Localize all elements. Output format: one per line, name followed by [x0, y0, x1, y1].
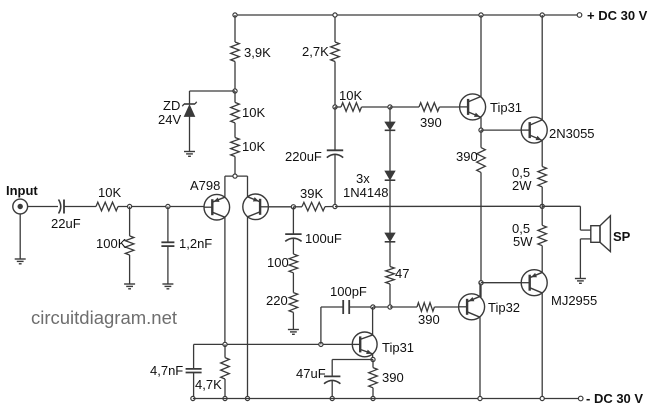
wire feedback node to 39K [293, 206, 302, 208]
wire 100K to ground [129, 255, 131, 284]
wire 4,7nF bottom lead [193, 373, 195, 399]
node Tip31 emitter [371, 357, 375, 361]
wire left emitter up [224, 176, 226, 197]
wire 220 to ground [292, 312, 294, 329]
transistor Tip31 lower [352, 332, 377, 357]
node Tip31 collector rail [479, 13, 483, 17]
svg-text:5W: 5W [513, 234, 533, 249]
wire 2N3055 emitter down [541, 140, 543, 166]
wire 100pF left lead [321, 306, 343, 308]
wire long output feedback line [335, 205, 542, 207]
svg-text:Input: Input [6, 183, 38, 198]
resistor 100 [289, 254, 298, 273]
resistor 47 [386, 267, 395, 285]
wire 100uF top lead [292, 207, 294, 234]
node 3,9K top corner [233, 13, 237, 17]
wire 2W to output node [541, 187, 543, 206]
zener diode ZD 24V [184, 105, 194, 117]
wire D3 to 47 [389, 242, 391, 267]
wire bottom -30V rail [193, 398, 581, 400]
svg-text:MJ2955: MJ2955 [551, 293, 597, 308]
transistor Tip32 [459, 294, 485, 320]
wire A798 collector load line [194, 343, 353, 345]
svg-text:2N3055: 2N3055 [549, 126, 595, 141]
wire MJ2955 base [481, 282, 521, 284]
transistor Tip31 upper [460, 94, 486, 120]
wire emitter to 47uF corner [332, 359, 373, 361]
terminal -DC 30V [578, 396, 583, 401]
wire output to speaker corner [542, 205, 580, 207]
capacitor 22uF [59, 200, 61, 214]
wire 10K to base with taps [118, 206, 204, 208]
wire input jack to 22uF [28, 206, 58, 208]
svg-text:3,9K: 3,9K [244, 45, 271, 60]
node 100pF branch bottom [319, 342, 323, 346]
wire between 10K resistors [234, 123, 236, 138]
node rail left end [191, 396, 195, 400]
wire 3,9K column top [234, 15, 236, 42]
wire node to 10K upper [234, 91, 236, 102]
wire 2N3055 collector to rail [541, 15, 543, 121]
svg-text:1,2nF: 1,2nF [179, 236, 212, 251]
wire 2,7K column top [334, 15, 336, 42]
wire Tip32 collector to rail [479, 317, 481, 399]
node VAS collector [371, 305, 375, 309]
resistor 390 upper horizontal [419, 103, 439, 112]
resistor 220 [289, 293, 298, 313]
ground speaker [575, 278, 586, 280]
capacitor 47uF [324, 375, 340, 377]
wire emitter tie [225, 175, 248, 177]
wire Tip32 emitter up [479, 283, 481, 297]
wire 3,9K to node [234, 62, 236, 92]
wire Tip31 collector up [372, 307, 374, 335]
svg-text:100: 100 [267, 255, 289, 270]
wire 100pF right lead [349, 306, 373, 308]
wire top +30V rail [235, 14, 579, 16]
wire 390 to Tip32 base [434, 306, 458, 308]
wire right emitter up [247, 176, 249, 197]
transistor MJ2955 [521, 270, 547, 296]
wire 47 to VAS collector node [389, 284, 391, 307]
node 1,2nF tap [166, 204, 170, 208]
svg-text:4,7K: 4,7K [195, 377, 222, 392]
wire MJ2955 collector to rail [541, 293, 543, 399]
wire input jack ground lead [19, 214, 21, 259]
resistor 10K upper [231, 102, 240, 123]
wire speaker ground lead [579, 239, 581, 278]
resistor 3,9K [231, 42, 240, 62]
svg-text:1N4148: 1N4148 [343, 185, 389, 200]
svg-text:39K: 39K [300, 186, 323, 201]
node emitter junction [233, 174, 237, 178]
wire 100pF branch vertical [320, 307, 322, 344]
node Tip31 emitter 2N3055 base [479, 128, 483, 132]
svg-text:10K: 10K [242, 139, 265, 154]
svg-text:220: 220 [266, 293, 288, 308]
node 2N3055 collector rail [540, 13, 544, 17]
resistor 100K [125, 236, 134, 255]
wire 1,2nF top lead [167, 207, 169, 243]
wire output node to 5W [541, 206, 543, 225]
resistor 0,5 2W [538, 167, 547, 187]
ground zener [184, 151, 195, 153]
svg-text:22uF: 22uF [51, 216, 81, 231]
speaker SP [591, 226, 600, 243]
node Tip32 collector rail [478, 396, 482, 400]
wire diode chain segment 1 [389, 107, 391, 122]
svg-text:circuitdiagram.net: circuitdiagram.net [31, 307, 177, 328]
wire zener top lead [189, 91, 191, 104]
wire 4,7nF top lead [193, 344, 195, 369]
wire 22uF to 10K [64, 206, 96, 208]
wire 2N3055 base [481, 129, 521, 131]
wire speaker bottom stub [580, 238, 590, 240]
node feedback tap [291, 205, 295, 209]
svg-text:390: 390 [420, 115, 442, 130]
diode D3 1N4148 [385, 233, 395, 241]
capacitor 220uF [327, 149, 343, 151]
wire zener anode lead [189, 117, 191, 152]
node zener tap [233, 89, 237, 93]
svg-text:10K: 10K [242, 105, 265, 120]
node 2,7K rail [333, 13, 337, 17]
wire 4,7K top lead [224, 344, 226, 357]
svg-text:- DC 30 V: - DC 30 V [586, 391, 643, 406]
wire 10K chain to emitters [234, 157, 236, 177]
svg-text:47uF: 47uF [296, 366, 326, 381]
svg-text:SP: SP [613, 229, 631, 244]
ground 220 [288, 329, 299, 331]
wire 4,7K bottom lead [224, 379, 226, 399]
wire 2,7K to node [334, 62, 336, 108]
wire 100 to 220 [292, 273, 294, 293]
input jack [13, 199, 28, 214]
resistor 10K horizontal [341, 103, 362, 112]
wire 1,2nF to ground [167, 246, 169, 283]
capacitor 100uF [285, 233, 301, 235]
svg-text:10K: 10K [339, 88, 362, 103]
node 2,7K bottom [333, 105, 337, 109]
node 4,7K top [223, 342, 227, 346]
svg-text:10K: 10K [98, 185, 121, 200]
resistor 390 vertical upper [477, 148, 486, 173]
resistor 10K lower [231, 138, 240, 157]
resistor 0,5 5W [538, 225, 547, 245]
svg-text:3x: 3x [356, 171, 370, 186]
wire 10K to diode node [362, 106, 391, 108]
resistor 10K input [96, 202, 118, 211]
wire right base to feedback node [268, 206, 293, 208]
svg-text:220uF: 220uF [285, 149, 322, 164]
transistor A798 right half [243, 194, 269, 220]
wire collector node to diode node [373, 306, 390, 308]
wire speaker top stub [580, 229, 590, 231]
svg-text:A798: A798 [190, 178, 220, 193]
capacitor 4,7nF [186, 368, 202, 370]
node 4,7K rail [223, 396, 227, 400]
capacitor 1,2nF [161, 241, 174, 243]
wire 390 to Tip31 base [439, 106, 459, 108]
svg-text:390: 390 [418, 312, 440, 327]
wire 100uF to 100 [292, 238, 294, 254]
wire 220uF bottom lead [334, 155, 336, 207]
node diode chain bottom [388, 305, 392, 309]
ground input [15, 258, 26, 260]
wire speaker drop [579, 206, 581, 230]
wire Tip31 collector to rail [480, 15, 482, 97]
svg-text:Tip31: Tip31 [490, 100, 522, 115]
svg-text:4,7nF: 4,7nF [150, 363, 183, 378]
wire Tip31 emitter down [480, 117, 482, 130]
svg-text:100pF: 100pF [330, 284, 367, 299]
terminal +DC 30V [577, 13, 582, 18]
transistor A798 left half [204, 194, 230, 220]
capacitor 100pF [342, 300, 344, 314]
node MJ2955 collector rail [540, 396, 544, 400]
svg-text:Tip32: Tip32 [488, 300, 520, 315]
wire 390 down to MJ2955 base node [480, 172, 482, 297]
wire left collector down [224, 217, 226, 344]
node 47uF rail [330, 396, 334, 400]
node output [540, 204, 544, 208]
resistor 2,7K [331, 42, 340, 62]
wire 390 emitter top lead [372, 360, 374, 368]
svg-text:47: 47 [395, 266, 409, 281]
node diode chain top [388, 105, 392, 109]
svg-text:+ DC 30 V: + DC 30 V [587, 8, 648, 23]
wire 100K top lead [129, 207, 131, 236]
resistor 4,7K [221, 358, 230, 379]
node 390 rail [371, 396, 375, 400]
diode D1 1N4148 [385, 122, 395, 130]
svg-text:2,7K: 2,7K [302, 44, 329, 59]
wire 39K to 220uF node [325, 206, 335, 208]
wire diode node to 390 [390, 306, 417, 308]
svg-text:100uF: 100uF [305, 231, 342, 246]
wire 390 emitter bottom lead [372, 388, 374, 399]
node 220uF bottom [333, 204, 337, 208]
ground 1,2nF [162, 283, 173, 285]
wire emitter node to 390 [480, 130, 482, 148]
wire 47uF bottom lead [331, 381, 333, 399]
svg-text:ZD: ZD [163, 98, 180, 113]
transistor 2N3055 [521, 117, 547, 143]
diode D2 1N4148 [385, 171, 395, 180]
node 100K tap [128, 204, 132, 208]
node MJ2955 base tap [479, 281, 483, 285]
ground 100K [124, 283, 135, 285]
wire 47uF top lead [331, 360, 333, 377]
resistor 390 lower horizontal [417, 303, 434, 312]
svg-text:100K: 100K [96, 236, 127, 251]
wire D1 to D2 [389, 130, 391, 171]
svg-text:390: 390 [456, 149, 478, 164]
wire D2 to D3 crossing signal wire [389, 180, 391, 233]
resistor 39K [302, 202, 325, 211]
svg-text:390: 390 [382, 370, 404, 385]
wire diode node to 390 [390, 106, 419, 108]
wire node to 10K horiz [335, 106, 341, 108]
svg-text:24V: 24V [158, 112, 181, 127]
wire right collector down to rail [247, 217, 249, 399]
wire zener branch horizontal [190, 90, 236, 92]
svg-text:2W: 2W [512, 178, 532, 193]
wire 5W to MJ2955 emitter [541, 246, 543, 273]
resistor 390 emitter [369, 368, 378, 388]
wire Tip31 emitter to node [372, 354, 374, 360]
node A798 collector rail [245, 396, 249, 400]
svg-text:Tip31: Tip31 [382, 340, 414, 355]
wire 220uF top lead [334, 107, 336, 150]
